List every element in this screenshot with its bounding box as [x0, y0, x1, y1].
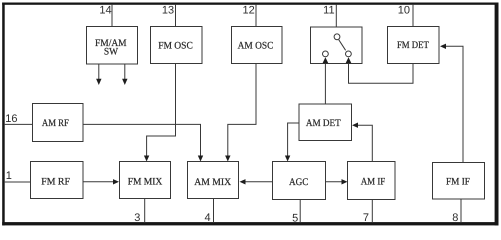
- label 5: [292, 213, 298, 225]
- block AM DET: [299, 104, 352, 141]
- switch left contact circle: [323, 51, 329, 57]
- terminal 3 wire: [144, 199, 146, 223]
- svg-text:FM OSC: FM OSC: [158, 41, 193, 52]
- terminal 7 wire: [371, 200, 373, 223]
- wire FM/AM SW output arrow right: [122, 64, 127, 85]
- terminal 4 wire: [213, 199, 215, 223]
- terminal 12 wire: [255, 5, 257, 27]
- wire FM DET to switch right contact: [346, 57, 413, 83]
- switch right contact circle: [346, 51, 352, 57]
- svg-text:10: 10: [398, 4, 410, 16]
- svg-text:AM MIX: AM MIX: [194, 177, 232, 188]
- block AM MIX (4): [188, 162, 239, 199]
- svg-text:5: 5: [292, 213, 298, 225]
- wire AM RF to AM MIX: [83, 124, 203, 161]
- label 14: [99, 4, 111, 16]
- svg-text:7: 7: [363, 212, 369, 224]
- wire FM RF to FM MIX: [83, 179, 119, 184]
- svg-text:AM OSC: AM OSC: [238, 41, 274, 52]
- label 12: [243, 4, 255, 16]
- terminal 14 wire: [111, 5, 113, 27]
- svg-text:8: 8: [452, 212, 458, 224]
- wire FM/AM SW output arrow left: [96, 64, 101, 85]
- wire AM DET to switch left contact: [323, 57, 329, 104]
- label 13: [162, 4, 174, 16]
- block band switch (11): [311, 27, 363, 64]
- block AGC (5): [273, 162, 326, 200]
- switch lever: [339, 40, 346, 51]
- terminal 10 wire: [412, 5, 414, 27]
- svg-text:14: 14: [99, 4, 111, 16]
- svg-text:11: 11: [323, 4, 334, 16]
- svg-text:AM DET: AM DET: [306, 118, 341, 129]
- block AM RF (16): [33, 104, 84, 142]
- block FM/AM SW (14): [87, 27, 138, 65]
- wire AM OSC to AM MIX: [225, 64, 256, 162]
- svg-text:SW: SW: [104, 46, 119, 57]
- terminal 1 wire: [5, 181, 31, 183]
- terminal 16 wire: [5, 123, 33, 125]
- svg-text:FM DET: FM DET: [397, 40, 429, 51]
- svg-text:AGC: AGC: [289, 177, 309, 188]
- label 16: [5, 113, 17, 125]
- wire AGC to AM MIX: [240, 179, 273, 184]
- label 4: [204, 212, 210, 224]
- terminal 13 wire: [175, 5, 177, 27]
- block FM IF (8): [433, 163, 485, 200]
- svg-text:4: 4: [204, 212, 210, 224]
- svg-text:13: 13: [162, 4, 174, 16]
- block FM OSC (13): [151, 27, 203, 64]
- svg-text:12: 12: [243, 4, 255, 16]
- svg-text:FM MIX: FM MIX: [128, 177, 163, 188]
- block FM DET (10): [388, 27, 440, 64]
- wire AM DET to AGC: [285, 123, 299, 162]
- svg-text:1: 1: [6, 170, 12, 182]
- label 7: [363, 212, 369, 224]
- label 1: [6, 170, 12, 182]
- svg-text:FM IF: FM IF: [446, 177, 470, 188]
- label 11: [323, 4, 334, 16]
- label 8: [452, 212, 458, 224]
- svg-text:AM RF: AM RF: [42, 118, 69, 129]
- wire AM IF to AM DET: [352, 123, 372, 162]
- label 3: [134, 212, 140, 224]
- wire FM OSC to FM MIX: [144, 64, 176, 162]
- terminal 5 wire: [299, 200, 301, 223]
- svg-text:AM IF: AM IF: [361, 177, 386, 188]
- block AM OSC (12): [232, 27, 283, 64]
- terminal 11 wire: [335, 5, 337, 27]
- svg-text:16: 16: [5, 113, 17, 125]
- wire AGC to AM IF: [326, 179, 348, 184]
- block FM RF (1): [31, 162, 84, 199]
- wire FM IF to FM DET: [440, 44, 463, 163]
- terminal 8 wire: [460, 199, 462, 223]
- label 10: [398, 4, 410, 16]
- block FM MIX (3): [120, 162, 171, 199]
- svg-text:3: 3: [134, 212, 140, 224]
- svg-text:FM RF: FM RF: [41, 177, 70, 188]
- block AM IF (7): [348, 162, 396, 200]
- switch common contact circle: [334, 34, 340, 40]
